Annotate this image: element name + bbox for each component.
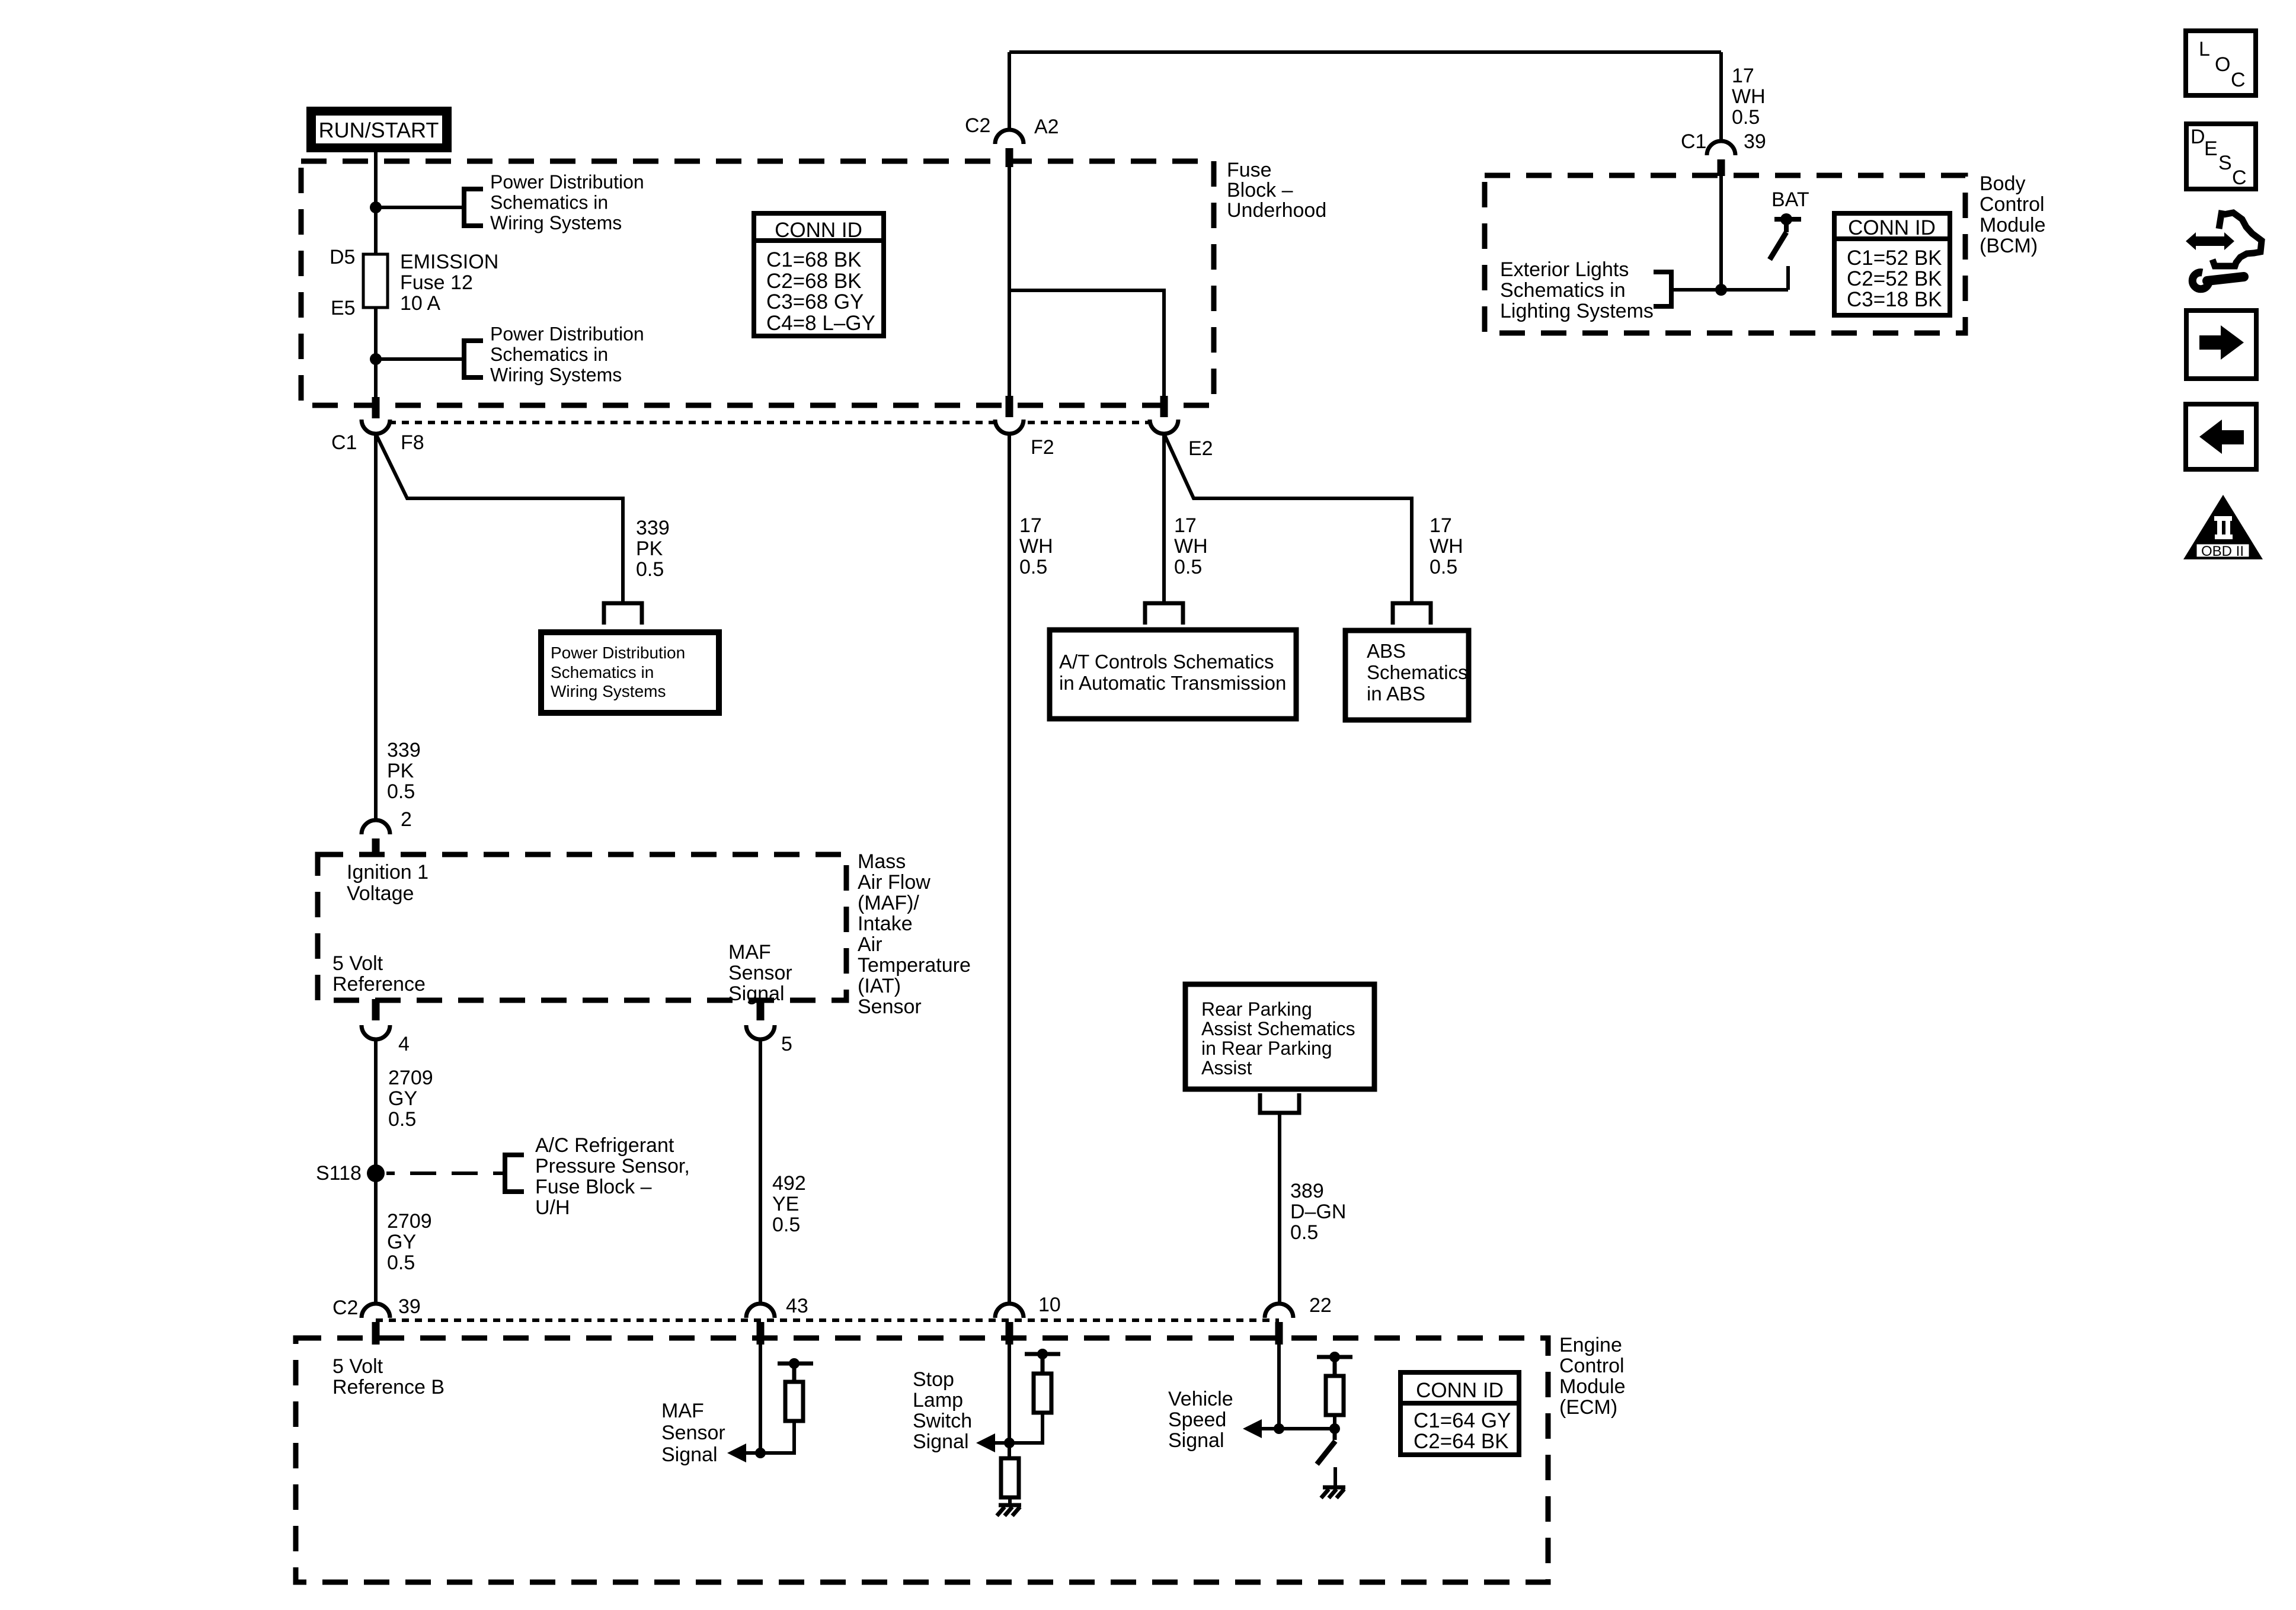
svg-text:PK: PK	[387, 760, 414, 782]
svg-text:PK: PK	[636, 537, 663, 560]
svg-text:Ignition 1: Ignition 1	[347, 861, 428, 884]
svg-text:10 A: 10 A	[400, 292, 440, 315]
svg-text:U/H: U/H	[535, 1196, 570, 1219]
svg-text:Wiring Systems: Wiring Systems	[490, 364, 622, 386]
svg-text:C2: C2	[332, 1297, 358, 1319]
svg-text:Schematics in: Schematics in	[490, 344, 608, 365]
MAF sensor signal branch inside ECM	[760, 1345, 813, 1453]
staple under rear parking assist box	[1260, 1093, 1299, 1113]
svg-text:ABS: ABS	[1367, 640, 1406, 662]
staple to ABS box	[1393, 603, 1431, 625]
connector F2	[995, 396, 1054, 459]
svg-text:Sensor: Sensor	[728, 962, 792, 984]
svg-text:Voltage: Voltage	[347, 882, 414, 905]
svg-text:Signal: Signal	[728, 982, 785, 1005]
svg-text:0.5: 0.5	[388, 1108, 416, 1131]
svg-text:17: 17	[1019, 514, 1042, 537]
svg-text:Control: Control	[1980, 193, 2045, 216]
icon back arrow box	[2186, 404, 2256, 469]
splice S118	[316, 1162, 385, 1185]
resistor vehicle speed pull-up	[1326, 1376, 1344, 1415]
switch position box RUN/START	[311, 111, 448, 149]
svg-text:Air Flow: Air Flow	[858, 871, 930, 894]
svg-text:492: 492	[772, 1172, 806, 1195]
icon OBD II triangle	[2183, 495, 2263, 559]
wire BCM junction to exterior lights bracket	[1671, 288, 1788, 292]
svg-text:Reference B: Reference B	[332, 1376, 445, 1398]
label 339 PK 0.5 branch	[636, 517, 670, 581]
arrow MAF sensor signal	[727, 1443, 760, 1462]
svg-text:4: 4	[398, 1033, 410, 1055]
wire fuse E5 to connector C1/F8 pin	[374, 308, 378, 397]
svg-text:0.5: 0.5	[387, 780, 415, 803]
svg-text:Pressure Sensor,: Pressure Sensor,	[535, 1155, 690, 1177]
bracket upper power distribution	[464, 189, 483, 226]
svg-text:0.5: 0.5	[636, 558, 664, 581]
rear parking assist box	[1185, 984, 1374, 1089]
label 492 YE 0.5	[772, 1172, 806, 1236]
label exterior lights schematics	[1500, 258, 1654, 322]
svg-text:Air: Air	[858, 933, 882, 956]
svg-text:Module: Module	[1559, 1375, 1626, 1398]
svg-text:Wiring Systems: Wiring Systems	[490, 212, 622, 233]
label 339 PK 0.5 main	[387, 739, 421, 803]
label D5	[330, 246, 355, 268]
label Engine Control Module (ECM)	[1559, 1334, 1626, 1419]
wire rear parking assist down to connector 22	[1278, 1113, 1281, 1304]
connector C1/F8	[331, 397, 424, 454]
svg-text:Lamp: Lamp	[913, 1389, 963, 1411]
label Stop Lamp Switch Signal	[913, 1368, 972, 1453]
fuse EMISSION Fuse 12	[363, 254, 388, 308]
connector 5	[746, 999, 792, 1055]
wire connector 4 down to ECM connector C2-39	[374, 1039, 378, 1304]
wire down to BCM connector C1	[1719, 52, 1723, 142]
svg-text:in ABS: in ABS	[1367, 683, 1425, 705]
svg-text:Schematics in: Schematics in	[551, 663, 654, 681]
label EMISSION Fuse 12 10 A	[400, 251, 498, 315]
svg-text:Control: Control	[1559, 1355, 1625, 1377]
wire branch to lower power distribution bracket	[376, 357, 464, 361]
bracket lower power distribution	[464, 341, 483, 377]
svg-text:Block –: Block –	[1227, 179, 1293, 201]
svg-text:0.5: 0.5	[387, 1251, 415, 1274]
wire down to connector C2/A2	[1008, 52, 1011, 130]
wire RUN/START to fuse D5	[374, 152, 378, 254]
svg-text:C4=8 L–GY: C4=8 L–GY	[766, 312, 875, 335]
svg-text:Mass: Mass	[858, 850, 906, 873]
resistor stop lamp pull-up	[1034, 1374, 1051, 1413]
label E5	[331, 297, 356, 319]
svg-text:Fuse 12: Fuse 12	[400, 271, 473, 294]
label A/C Refrigerant Pressure Sensor, Fuse Block - U/H	[535, 1134, 690, 1219]
label power distribution schematics lower	[490, 324, 644, 386]
ABS schematics box	[1345, 630, 1469, 720]
svg-text:GY: GY	[388, 1087, 417, 1110]
connector 10 at ECM	[995, 1294, 1061, 1345]
svg-text:Signal: Signal	[1168, 1429, 1224, 1452]
svg-text:17: 17	[1174, 514, 1197, 537]
connector 2	[362, 808, 412, 855]
svg-text:E2: E2	[1188, 437, 1213, 460]
connector C2/A2	[965, 114, 1059, 167]
stop lamp switch branch inside ECM	[1009, 1345, 1060, 1443]
svg-text:Sensor: Sensor	[858, 996, 922, 1018]
CONN ID table ECM	[1400, 1372, 1519, 1455]
svg-text:2: 2	[401, 808, 412, 831]
junction dot stop lamp	[1004, 1438, 1015, 1448]
svg-text:Schematics: Schematics	[1367, 661, 1468, 683]
staple to power distribution box	[604, 603, 642, 625]
svg-text:Assist Schematics: Assist Schematics	[1201, 1018, 1355, 1039]
dotted connector line at ECM top	[376, 1318, 1279, 1322]
svg-text:17: 17	[1430, 514, 1452, 537]
A/T controls schematics box	[1050, 630, 1296, 719]
label MAF Sensor Signal pin	[728, 941, 792, 1005]
svg-text:L: L	[2199, 38, 2210, 60]
svg-text:Rear Parking: Rear Parking	[1201, 998, 1312, 1020]
svg-text:Body: Body	[1980, 172, 2026, 195]
svg-text:E5: E5	[331, 297, 356, 319]
MAF/IAT sensor dashed box	[318, 854, 846, 1000]
dashed leader from S118	[386, 1172, 505, 1175]
svg-text:Signal: Signal	[913, 1430, 969, 1453]
power distribution schematics box	[541, 632, 719, 713]
junction dot switch node	[1329, 1423, 1340, 1434]
junction dot upper	[370, 201, 382, 213]
svg-text:Temperature: Temperature	[858, 954, 971, 977]
svg-text:A/T Controls Schematics: A/T Controls Schematics	[1059, 651, 1274, 673]
svg-text:(ECM): (ECM)	[1559, 1396, 1617, 1419]
svg-text:Assist: Assist	[1201, 1057, 1252, 1078]
label Vehicle Speed Signal	[1168, 1388, 1233, 1452]
svg-text:C2: C2	[965, 114, 990, 137]
svg-text:WH: WH	[1019, 535, 1053, 558]
junction dot MAF	[755, 1448, 766, 1458]
svg-text:GY: GY	[387, 1231, 416, 1253]
svg-text:OBD II: OBD II	[2201, 543, 2244, 559]
connector E2	[1150, 396, 1213, 460]
svg-text:0.5: 0.5	[1019, 556, 1047, 578]
wire BCM C1 pin down to junction	[1719, 176, 1723, 290]
vehicle speed branch inside ECM	[1279, 1345, 1352, 1429]
svg-text:D–GN: D–GN	[1290, 1201, 1346, 1223]
connector 22 at ECM	[1265, 1294, 1332, 1345]
label Mass Air Flow (MAF)/ Intake Air Temperature (IAT) Sensor	[858, 850, 971, 1018]
svg-text:E: E	[2204, 137, 2218, 160]
svg-text:Fuse Block –: Fuse Block –	[535, 1176, 652, 1198]
svg-text:Wiring Systems: Wiring Systems	[551, 682, 666, 700]
wire F8 branch to power distribution box	[376, 434, 623, 603]
label 2709 GY 0.5 lower	[387, 1210, 432, 1274]
icon service tool (arrow wrench)	[2186, 210, 2262, 289]
svg-text:17: 17	[1732, 65, 1754, 87]
svg-text:Stop: Stop	[913, 1368, 954, 1391]
svg-text:C2=64 BK: C2=64 BK	[1414, 1430, 1509, 1453]
icon forward arrow box	[2186, 311, 2256, 379]
switch BAT inside BCM	[1770, 213, 1801, 260]
svg-text:C2=68 BK: C2=68 BK	[766, 270, 862, 293]
label power distribution schematics upper	[490, 171, 644, 233]
svg-text:CONN ID: CONN ID	[1416, 1379, 1504, 1402]
svg-text:D: D	[2191, 126, 2205, 148]
svg-text:Lighting Systems: Lighting Systems	[1500, 300, 1654, 322]
svg-text:2709: 2709	[388, 1067, 433, 1089]
connector 43 at ECM	[746, 1295, 808, 1345]
svg-text:2709: 2709	[387, 1210, 432, 1233]
junction dot vehicle speed	[1274, 1423, 1284, 1434]
wire resistor to stop lamp junction	[1009, 1413, 1043, 1443]
switch vehicle speed	[1317, 1429, 1335, 1464]
svg-text:339: 339	[387, 739, 421, 761]
svg-text:EMISSION: EMISSION	[400, 251, 498, 273]
fuse block - underhood dashed box	[301, 161, 1214, 405]
label Body Control Module (BCM)	[1980, 172, 2046, 257]
svg-text:5: 5	[781, 1033, 792, 1055]
svg-text:S: S	[2218, 152, 2232, 174]
icon DESC box	[2186, 124, 2256, 189]
wire C1/F8 down to connector 2	[374, 434, 378, 820]
svg-text:C2=52 BK: C2=52 BK	[1847, 267, 1942, 290]
svg-text:MAF: MAF	[728, 941, 771, 964]
wire top power bus	[1009, 50, 1721, 54]
svg-text:Intake: Intake	[858, 913, 913, 935]
svg-text:Signal: Signal	[661, 1443, 718, 1466]
ground vehicle speed	[1321, 1467, 1345, 1498]
svg-text:CONN ID: CONN ID	[775, 219, 862, 242]
svg-text:C1: C1	[1681, 130, 1706, 153]
svg-text:C: C	[2231, 69, 2246, 91]
svg-text:C: C	[2232, 167, 2247, 189]
wire resistor to MAF junction	[760, 1421, 794, 1453]
svg-text:Schematics in: Schematics in	[490, 192, 608, 213]
svg-text:BAT: BAT	[1771, 188, 1809, 211]
label 17 WH 0.5 at BCM	[1732, 65, 1766, 129]
resistor stop lamp to ground	[1001, 1443, 1019, 1505]
resistor MAF pull-up	[785, 1382, 803, 1421]
label 17 WH 0.5 at ABS	[1430, 514, 1463, 578]
junction dot BCM	[1715, 284, 1727, 296]
svg-text:Speed: Speed	[1168, 1409, 1226, 1431]
engine control module dashed box	[296, 1338, 1548, 1582]
arrow stop lamp switch signal	[976, 1433, 1009, 1452]
svg-text:C3=68 GY: C3=68 GY	[766, 290, 864, 313]
svg-text:43: 43	[786, 1295, 808, 1317]
svg-text:Engine: Engine	[1559, 1334, 1622, 1356]
label Fuse Block - Underhood	[1227, 159, 1326, 222]
junction dot lower	[370, 353, 382, 365]
label BAT	[1771, 188, 1809, 211]
wire branch A2 to E2	[1009, 290, 1164, 396]
svg-text:5 Volt: 5 Volt	[332, 952, 383, 975]
label 389 D-GN 0.5	[1290, 1180, 1346, 1244]
label Ignition 1 Voltage	[347, 861, 428, 905]
svg-text:WH: WH	[1174, 535, 1208, 558]
wire branch to upper power distribution bracket	[376, 206, 464, 209]
svg-text:WH: WH	[1732, 85, 1766, 108]
svg-text:C3=18 BK: C3=18 BK	[1847, 288, 1942, 311]
wire F2 down to ECM connector 10	[1008, 434, 1011, 1304]
svg-text:in Rear Parking: in Rear Parking	[1201, 1038, 1332, 1059]
svg-text:(BCM): (BCM)	[1980, 235, 2038, 257]
svg-text:YE: YE	[772, 1193, 799, 1215]
icon LOC box	[2186, 31, 2256, 95]
svg-text:RUN/START: RUN/START	[319, 118, 439, 142]
svg-text:39: 39	[1744, 130, 1766, 153]
dotted connector line at fuse block bottom	[376, 421, 1164, 424]
svg-text:D5: D5	[330, 246, 355, 268]
wire E2 down to A/T staple	[1162, 434, 1166, 603]
wire A2 pin down inside fuse block	[1008, 165, 1011, 397]
label MAF Sensor Signal	[661, 1400, 725, 1466]
svg-text:A/C Refrigerant: A/C Refrigerant	[535, 1134, 674, 1157]
svg-text:CONN ID: CONN ID	[1848, 216, 1936, 239]
label 5 Volt Reference	[332, 952, 426, 996]
bracket A/C refrigerant	[505, 1155, 524, 1192]
svg-text:WH: WH	[1430, 535, 1463, 558]
svg-text:C1=68 BK: C1=68 BK	[766, 248, 862, 271]
wire E2 branch to ABS staple	[1164, 434, 1412, 603]
svg-text:0.5: 0.5	[1430, 556, 1457, 578]
label 17 WH 0.5 at F2	[1019, 514, 1053, 578]
svg-text:C1=64 GY: C1=64 GY	[1414, 1409, 1511, 1432]
label 5 Volt Reference B	[332, 1355, 445, 1398]
svg-text:F2: F2	[1031, 436, 1054, 459]
CONN ID table BCM	[1834, 213, 1950, 315]
svg-text:389: 389	[1290, 1180, 1324, 1202]
svg-text:Underhood: Underhood	[1227, 199, 1326, 222]
staple to A/T controls box	[1145, 603, 1183, 625]
svg-text:O: O	[2215, 53, 2230, 76]
ground stop lamp	[997, 1505, 1021, 1516]
svg-text:Power Distribution: Power Distribution	[490, 324, 644, 345]
svg-text:S118: S118	[316, 1162, 362, 1185]
svg-text:Power Distribution: Power Distribution	[490, 171, 644, 193]
svg-text:0.5: 0.5	[1732, 106, 1760, 129]
svg-text:0.5: 0.5	[772, 1214, 800, 1236]
connector C1 39 at BCM	[1681, 130, 1766, 176]
svg-text:MAF: MAF	[661, 1400, 704, 1422]
connector C2 39 at ECM	[332, 1295, 421, 1345]
wire resistor to switch node	[1279, 1415, 1335, 1429]
svg-text:C1: C1	[331, 431, 357, 454]
svg-text:C1=52 BK: C1=52 BK	[1847, 247, 1942, 270]
body control module dashed box	[1485, 175, 1965, 333]
svg-text:F8: F8	[401, 431, 424, 454]
wire BCM switch hook	[1786, 266, 1790, 290]
connector 4	[362, 999, 410, 1055]
svg-text:in Automatic Transmission: in Automatic Transmission	[1059, 672, 1286, 694]
svg-text:Vehicle: Vehicle	[1168, 1388, 1233, 1410]
svg-text:Power Distribution: Power Distribution	[551, 644, 685, 662]
svg-text:Sensor: Sensor	[661, 1422, 725, 1444]
CONN ID table fuse block	[754, 213, 884, 336]
wire connector 5 down to ECM connector 43	[759, 1039, 762, 1304]
svg-text:0.5: 0.5	[1290, 1221, 1318, 1244]
svg-text:(IAT): (IAT)	[858, 975, 901, 997]
svg-text:(MAF)/: (MAF)/	[858, 892, 919, 914]
svg-text:22: 22	[1309, 1294, 1332, 1317]
svg-text:A2: A2	[1034, 116, 1059, 138]
svg-text:10: 10	[1038, 1294, 1061, 1316]
svg-text:39: 39	[398, 1295, 421, 1318]
svg-text:Reference: Reference	[332, 973, 426, 996]
svg-text:Switch: Switch	[913, 1410, 972, 1432]
svg-text:0.5: 0.5	[1174, 556, 1202, 578]
svg-text:Module: Module	[1980, 214, 2046, 236]
svg-text:Fuse: Fuse	[1227, 159, 1272, 181]
svg-text:Exterior Lights: Exterior Lights	[1500, 258, 1629, 281]
label 17 WH 0.5 at A/T	[1174, 514, 1208, 578]
svg-text:339: 339	[636, 517, 670, 539]
bracket exterior lights	[1654, 272, 1671, 306]
svg-text:5 Volt: 5 Volt	[332, 1355, 383, 1378]
label 2709 GY 0.5 upper	[388, 1067, 433, 1131]
svg-text:Schematics in: Schematics in	[1500, 279, 1626, 302]
arrow vehicle speed signal	[1243, 1419, 1279, 1438]
